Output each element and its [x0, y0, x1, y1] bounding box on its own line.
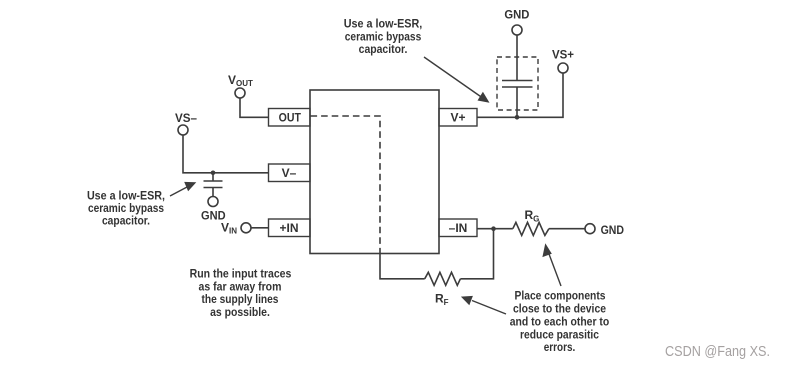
- svg-text:capacitor.: capacitor.: [102, 213, 150, 227]
- svg-text:and to each other to: and to each other to: [510, 314, 610, 328]
- pin box +IN: [269, 219, 311, 237]
- dashed feedback trace inside IC: [311, 116, 381, 252]
- svg-text:RG: RG: [525, 208, 540, 224]
- capacitor C2 plates: [502, 80, 533, 82]
- capacitor C1 leads: [212, 173, 214, 181]
- svg-text:OUT: OUT: [279, 111, 302, 125]
- annotation left: bypass cap note: [87, 188, 165, 227]
- wire GND top to capacitor: [516, 35, 518, 81]
- annotation bottom-left: input traces note: [190, 267, 292, 320]
- wire feedback down from IC: [380, 252, 425, 279]
- resistor RG: [513, 222, 549, 235]
- terminal VOUT: [235, 88, 245, 98]
- terminal VIN: [241, 223, 251, 233]
- svg-text:VOUT: VOUT: [228, 73, 253, 88]
- svg-text:as possible.: as possible.: [210, 305, 270, 319]
- terminal VS-: [178, 125, 188, 135]
- node junction at V+ cap: [515, 115, 520, 120]
- wire VIN to +IN: [251, 227, 269, 229]
- pin box V-: [269, 164, 311, 182]
- wire RF to -IN node: [460, 229, 493, 279]
- node junction at VS- cap: [211, 171, 216, 176]
- pin box OUT: [269, 109, 311, 127]
- terminal GND left: [208, 197, 218, 207]
- svg-text:VS+: VS+: [552, 48, 574, 62]
- pin box -IN: [439, 219, 477, 237]
- terminal GND right: [585, 224, 595, 234]
- capacitor C2 lower lead: [516, 87, 518, 117]
- wire VS- to V-: [183, 135, 269, 173]
- wire V+ to VS+: [477, 73, 563, 117]
- arrow to RG: [549, 254, 561, 286]
- terminal VS+: [558, 63, 568, 73]
- svg-text:GND: GND: [601, 223, 625, 237]
- capacitor C1 plates: [204, 180, 223, 182]
- svg-text:the supply lines: the supply lines: [202, 292, 279, 306]
- arrow to bypass cap left: [170, 187, 188, 197]
- svg-text:capacitor.: capacitor.: [359, 42, 408, 56]
- svg-text:VIN: VIN: [221, 221, 237, 236]
- svg-text:GND: GND: [504, 7, 529, 21]
- arrow to bypass cap top: [424, 57, 482, 98]
- svg-text:VS–: VS–: [175, 111, 197, 125]
- wire -IN to RG: [477, 228, 513, 230]
- resistor RF: [425, 272, 461, 285]
- op-amp IC body U1: [310, 90, 439, 254]
- svg-text:+IN: +IN: [279, 221, 298, 235]
- svg-text:errors.: errors.: [544, 340, 576, 354]
- svg-text:–IN: –IN: [449, 221, 468, 235]
- annotation bottom-right: placement note: [510, 289, 610, 355]
- wire VOUT to OUT: [240, 98, 269, 117]
- svg-text:CSDN @Fang XS.: CSDN @Fang XS.: [665, 343, 770, 360]
- arrow to RF: [472, 301, 506, 315]
- dashed bypass region box: [497, 57, 538, 110]
- svg-text:V–: V–: [282, 166, 297, 180]
- terminal GND top: [512, 25, 522, 35]
- pin box V+: [439, 109, 477, 127]
- svg-text:close to the device: close to the device: [513, 301, 606, 315]
- svg-text:V+: V+: [450, 111, 465, 125]
- svg-text:RF: RF: [435, 292, 449, 308]
- svg-text:as far away from: as far away from: [199, 279, 282, 293]
- wire RG to GND right: [549, 228, 585, 230]
- annotation top: bypass cap note: [344, 17, 423, 57]
- node junction at -IN: [491, 226, 496, 231]
